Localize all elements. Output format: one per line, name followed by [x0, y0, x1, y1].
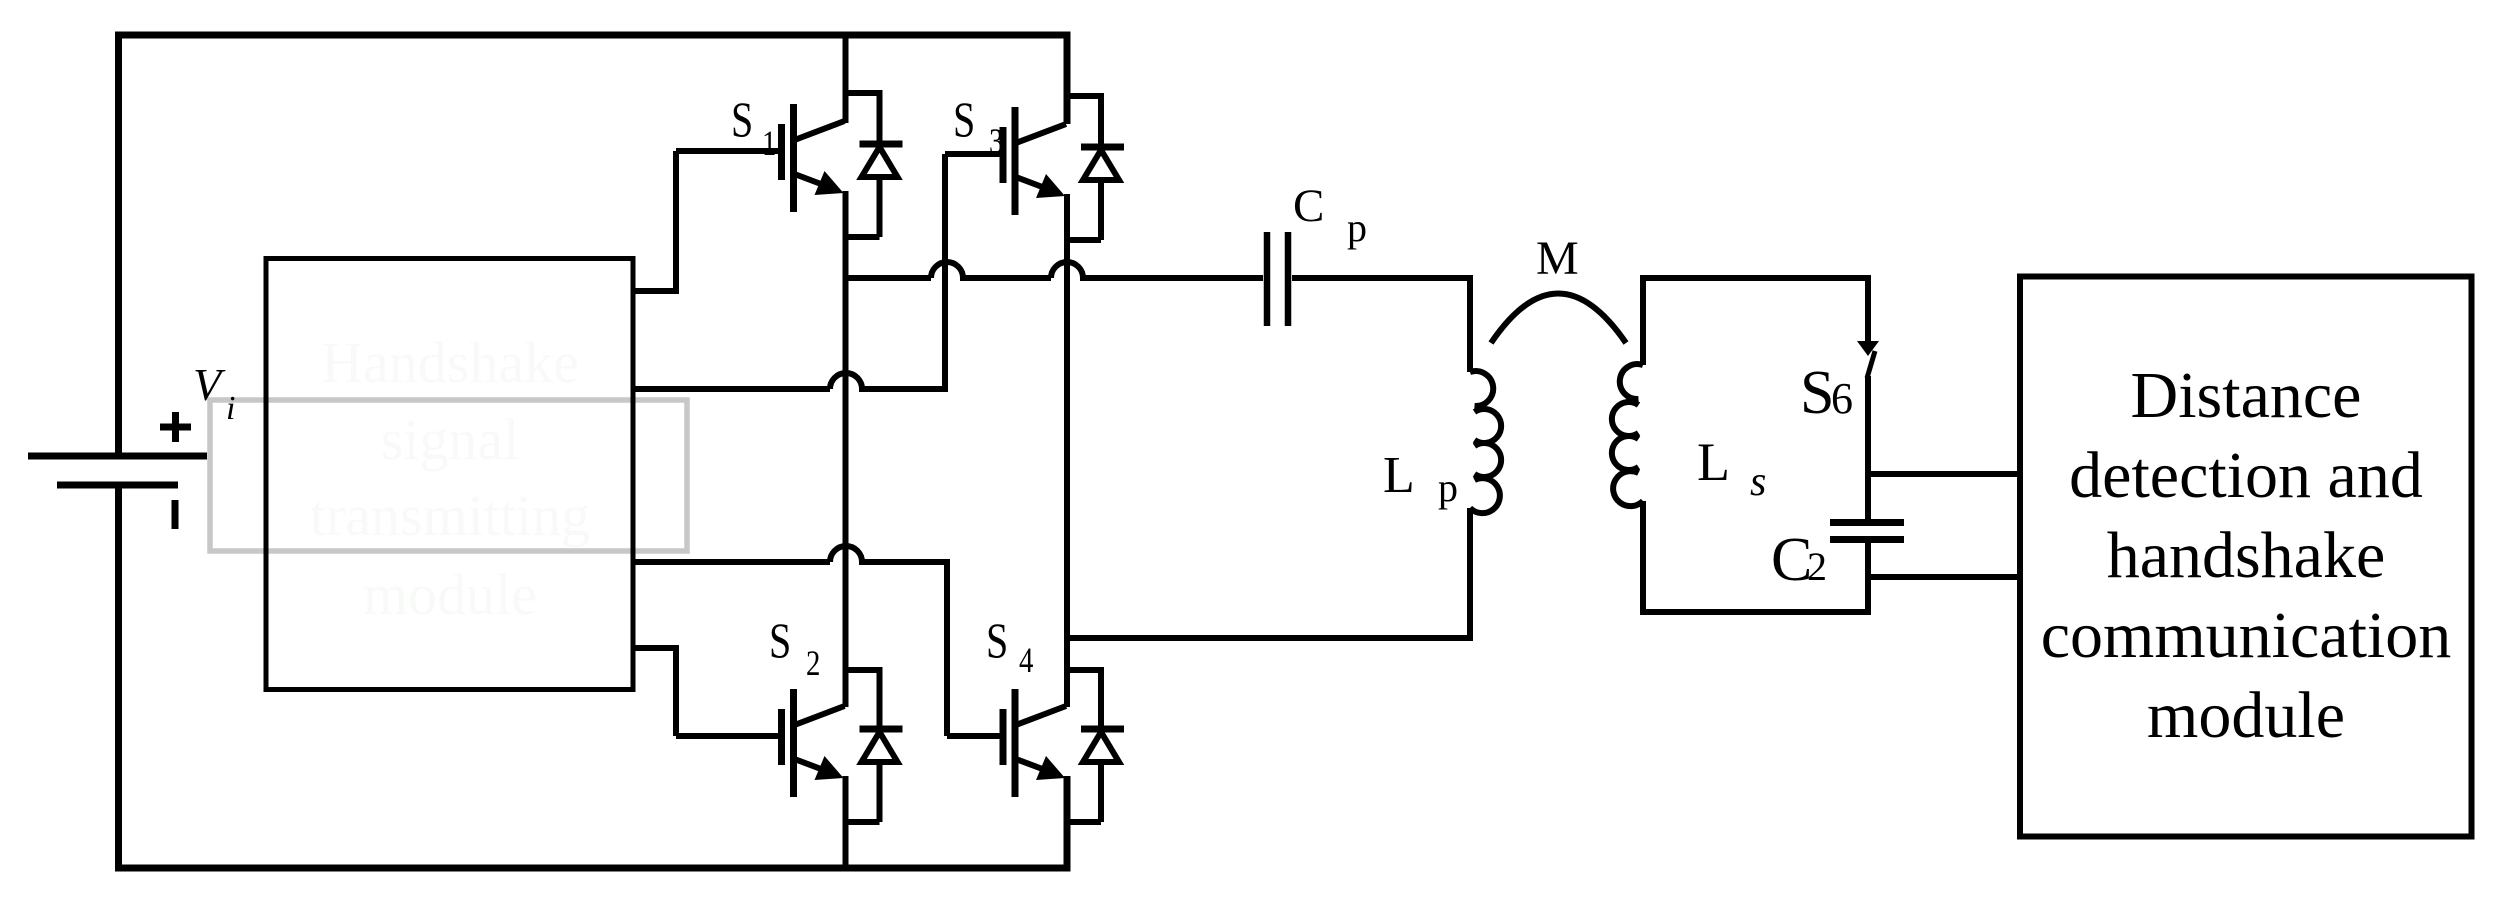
svg-text:1: 1 — [762, 124, 776, 164]
capacitor C2 top plate — [1830, 519, 1904, 526]
inductor Ls — [1612, 364, 1643, 506]
diode of S4: cathode wire — [1098, 667, 1104, 729]
wire switch to C2 — [1865, 376, 1871, 519]
transistor S1 emitter arrow — [815, 171, 844, 195]
svg-text:signal: signal — [381, 407, 520, 472]
transistor S3 emitter arrow — [1036, 174, 1065, 198]
svg-text:S: S — [953, 92, 975, 147]
svg-text:6: 6 — [1831, 374, 1853, 423]
transistor S1 label — [731, 92, 753, 147]
transistor S1 body bar — [790, 104, 797, 212]
transistor S4 emitter lead — [1016, 759, 1053, 773]
transistor S1 gate bar — [778, 124, 785, 180]
Lp bottom return wire to node B — [1067, 508, 1470, 638]
transistor S4 gate bar — [1000, 709, 1007, 765]
wire C2 to Ls loop bottom — [1865, 543, 1871, 615]
transistor S2 emitter lead — [795, 759, 832, 773]
DC source positive wire + top rail (node to S1/S3 collectors) — [119, 35, 1068, 456]
svg-text:M: M — [1536, 232, 1579, 285]
svg-text:transmitting: transmitting — [310, 483, 590, 548]
transistor S4 collector lead — [1016, 706, 1066, 725]
transistor S2 body bar — [790, 689, 797, 797]
Ls loop top wire to switch S6 — [1643, 278, 1868, 365]
svg-text:4: 4 — [1019, 641, 1033, 681]
diode of S3: top stub — [1064, 93, 1101, 99]
diode of S4: triangle — [1083, 732, 1119, 762]
transistor S2 label — [769, 613, 791, 668]
diode of S2: cathode wire — [877, 667, 883, 729]
diode of S4: cathode bar — [1081, 726, 1124, 733]
svg-text:detection and: detection and — [2069, 439, 2423, 512]
svg-text:S: S — [986, 613, 1008, 668]
svg-text:module: module — [2147, 679, 2345, 752]
svg-text:Distance: Distance — [2131, 359, 2362, 432]
svg-text:3: 3 — [989, 122, 1003, 162]
diode of S2: triangle — [862, 732, 898, 762]
wire Cp to Lp — [1292, 278, 1470, 372]
wire: box to S1 gate — [633, 151, 676, 291]
transistor S3 gate bar — [1000, 127, 1007, 183]
diode of S2: bottom stub — [843, 819, 880, 825]
diode of S3: cathode wire — [1098, 93, 1104, 147]
transistor S2 gate lead — [676, 733, 782, 739]
inductor Lp — [1470, 371, 1501, 513]
node A vertical: S1 emitter to S2 collector — [843, 191, 849, 707]
diode of S3: anode wire — [1098, 180, 1104, 240]
transistor S2 collector lead — [795, 706, 845, 725]
S1 collector wire from top rail — [843, 35, 849, 123]
transistor S1 gate lead — [676, 148, 782, 154]
switch S6 arrow tip — [1857, 341, 1879, 356]
diode of S1: anode wire — [877, 177, 883, 237]
diode of S2: cathode bar — [860, 726, 903, 733]
diode of S4: anode wire — [1098, 762, 1104, 822]
wire: box to S4 gate (hops over node A leg) — [633, 546, 947, 736]
svg-text:S: S — [769, 613, 791, 668]
diode of S1: bottom stub — [843, 234, 880, 240]
svg-text:Handshake: Handshake — [321, 330, 579, 395]
switch S6 lever — [1867, 351, 1875, 378]
svg-text:p: p — [1438, 465, 1458, 510]
battery plus sign — [160, 424, 191, 431]
diode of S2: top stub — [843, 667, 880, 673]
handshake signal transmitting module box — [266, 259, 633, 690]
diode of S1: top stub — [843, 90, 880, 96]
wire junction to module lower — [1868, 574, 2020, 580]
transistor S1 emitter lead — [795, 174, 832, 188]
wire: box to S3 gate (hops over node A leg) — [633, 154, 945, 389]
svg-text:2: 2 — [806, 644, 820, 684]
transistor S3 label — [953, 92, 975, 147]
transistor S3 body bar — [1012, 107, 1019, 215]
svg-text:communication: communication — [2041, 599, 2452, 672]
transistor S4 body bar — [1012, 689, 1019, 797]
battery minus sign — [172, 500, 179, 529]
svg-text:C: C — [1293, 180, 1324, 232]
diode of S4: top stub — [1064, 667, 1101, 673]
capacitor C2 bottom plate — [1830, 536, 1904, 543]
transistor S3 gate lead — [945, 151, 1003, 157]
wire: box to S2 gate — [633, 648, 676, 736]
transistor S4 label — [986, 613, 1008, 668]
S2 emitter wire to bottom rail — [843, 776, 849, 868]
capacitor Cp left plate — [1264, 232, 1271, 326]
transistor S4 gate lead — [947, 733, 1003, 739]
svg-text:L: L — [1697, 432, 1730, 492]
diode of S4: bottom stub — [1064, 819, 1101, 825]
node A output wire to Cp (hops over S3 gate leg and node B leg) — [846, 262, 1264, 278]
mutual coupling arc M — [1491, 294, 1626, 344]
wire junction to module upper — [1868, 471, 2020, 477]
svg-text:i: i — [226, 390, 235, 427]
transistor S3 collector lead — [1016, 124, 1066, 143]
svg-text:L: L — [1383, 447, 1415, 504]
svg-text:S: S — [1800, 359, 1834, 427]
distance detection and handshake communication module box — [2020, 277, 2472, 837]
svg-text:module: module — [363, 562, 537, 627]
svg-text:V: V — [193, 359, 226, 410]
svg-text:2: 2 — [1807, 544, 1827, 589]
transistor S2 gate bar — [778, 709, 785, 765]
svg-text:p: p — [1347, 205, 1367, 250]
battery Vi bottom plate — [57, 482, 178, 489]
diode of S1: triangle — [862, 147, 898, 177]
diode of S2: anode wire — [877, 762, 883, 822]
Ls loop bottom wire — [1643, 501, 1868, 612]
svg-text:s: s — [1750, 459, 1766, 505]
battery Vi top plate — [28, 453, 207, 460]
transistor S4 emitter arrow — [1036, 756, 1065, 780]
capacitor Cp right plate — [1285, 232, 1292, 326]
diode of S3: triangle — [1083, 150, 1119, 180]
diode of S1: cathode wire — [877, 90, 883, 144]
transistor S1 collector lead — [795, 121, 845, 140]
transistor S3 emitter lead — [1016, 177, 1053, 191]
node B vertical: S3 emitter to S4 collector — [1064, 194, 1070, 707]
DC source negative wire + bottom rail — [119, 485, 1068, 868]
transistor S2 emitter arrow — [815, 756, 844, 780]
gray measurement rectangle around Vi source region — [210, 400, 687, 551]
diode of S3: bottom stub — [1064, 237, 1101, 243]
diode of S3: cathode bar — [1081, 144, 1124, 151]
diode of S1: cathode bar — [860, 141, 903, 148]
svg-text:handshake: handshake — [2107, 519, 2386, 592]
svg-text:S: S — [731, 92, 753, 147]
